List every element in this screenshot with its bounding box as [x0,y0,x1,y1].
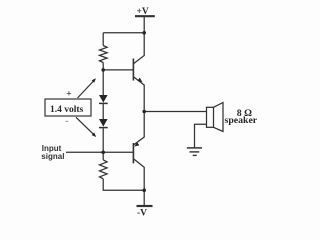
svg-text:+: + [66,89,71,99]
svg-text:-V: -V [137,208,147,218]
svg-text:1.4 volts: 1.4 volts [50,105,84,115]
svg-text:signal: signal [41,152,64,161]
svg-text:speaker: speaker [225,115,258,126]
svg-text:+V: +V [137,7,149,17]
